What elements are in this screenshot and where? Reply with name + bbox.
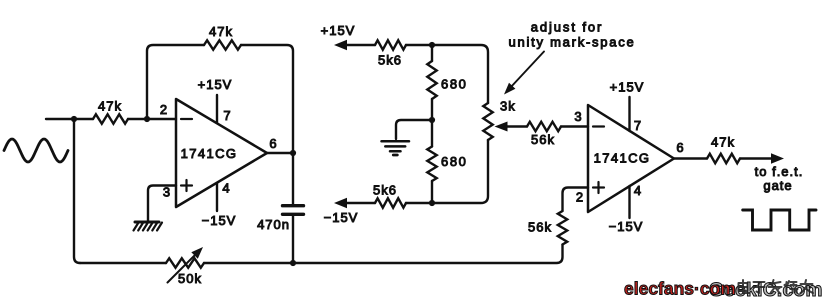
svg-text:2: 2: [160, 102, 168, 117]
wire: feedback loop of U1: [147, 45, 293, 153]
node C junction dot (U1 output): [290, 150, 296, 156]
svg-text:4: 4: [634, 183, 642, 198]
svg-text:+15V: +15V: [610, 80, 645, 95]
resistor R 5k6 (lower): [375, 198, 406, 207]
node F junction dot (divider midpoint): [429, 117, 435, 123]
arrow to +15V: [334, 40, 347, 50]
ground (divider midpoint, 3-bar): [382, 141, 410, 155]
U2 pin 7 supply stub: [628, 97, 630, 131]
svg-text:−15V: −15V: [609, 219, 644, 234]
wire: divider midpoint to ground: [396, 120, 432, 139]
wire: divider top segment: [431, 45, 433, 120]
square wave symbol: [743, 210, 816, 230]
potentiometer 3k: [483, 103, 492, 140]
U1 minus sign (inverting input): [181, 118, 192, 120]
svg-text:to f.e.t.: to f.e.t.: [755, 164, 804, 179]
resistor R 47k (input): [93, 114, 128, 123]
wire: divider bottom segment: [431, 120, 433, 203]
U2 minus sign (inverting input): [593, 125, 604, 127]
node D junction dot (rail / capacitor): [290, 260, 296, 266]
wire: wiper to 56k: [506, 125, 588, 127]
svg-text:−15V: −15V: [202, 213, 237, 228]
annotation arrow to 3k pot: [510, 52, 544, 89]
resistor R 47k (feedback): [204, 40, 241, 49]
potentiometer 3k wiper arrow: [495, 122, 508, 132]
svg-text:47k: 47k: [98, 99, 122, 114]
wire: divider top to potentiometer top: [432, 45, 488, 103]
node G junction dot (bottom of divider): [429, 200, 435, 206]
wire: bottom rail: [80, 245, 563, 264]
node A junction dot (input): [71, 116, 77, 122]
resistor R 47k (output): [707, 154, 740, 163]
input sine wave symbol: [4, 139, 68, 162]
svg-text:6: 6: [269, 136, 277, 151]
output arrow to f.e.t. gate: [771, 153, 784, 163]
resistor R 56k (U2 pin 2 to rail): [558, 211, 567, 245]
ground (U1 pin 3, hatched): [134, 222, 163, 231]
svg-text:6: 6: [676, 140, 684, 155]
svg-text:50k: 50k: [178, 271, 202, 286]
svg-text:5k6: 5k6: [378, 53, 402, 68]
U1 pin 7 supply stub: [216, 95, 218, 123]
svg-text:5k6: 5k6: [373, 183, 397, 198]
node E junction dot (top of divider): [429, 42, 435, 48]
wire: +15V feed: [345, 44, 432, 46]
wire: -15V feed: [345, 202, 432, 204]
U2 pin 4 supply stub: [628, 186, 630, 218]
wire: U1 output: [267, 152, 293, 154]
svg-text:1741CG: 1741CG: [594, 151, 651, 166]
wire: U1 pin 3 to ground: [148, 186, 176, 222]
wire: divider bottom to potentiometer bottom: [432, 140, 488, 203]
wire: capacitor to bottom rail: [292, 216, 294, 263]
op-amp U2 triangle: [588, 105, 674, 212]
op-amp U1 triangle: [176, 99, 267, 207]
svg-text:3k: 3k: [500, 99, 516, 114]
svg-text:47k: 47k: [711, 135, 735, 150]
resistor R 680 (upper): [427, 61, 436, 99]
U1 plus sign (non-inverting input): [181, 180, 192, 191]
resistor R 5k6 (upper): [375, 40, 406, 49]
U1 pin 4 supply stub: [216, 183, 218, 211]
svg-text:elecfans·com: elecfans·com: [624, 279, 736, 299]
svg-text:gate: gate: [763, 178, 792, 193]
svg-text:7: 7: [634, 118, 642, 133]
wire: left vertical down to bottom rail: [74, 119, 80, 263]
svg-text:3: 3: [574, 109, 582, 124]
svg-text:7: 7: [223, 108, 231, 123]
svg-text:680: 680: [441, 77, 468, 92]
node B junction dot (U1 inverting input): [144, 116, 150, 122]
wire: U2 pin 2 to 56k: [563, 188, 589, 212]
watermark chinese characters (vector strokes): [739, 280, 814, 293]
wire: input line to op-amp U1 pin 2: [46, 118, 176, 120]
svg-text:+15V: +15V: [198, 77, 233, 92]
arrow to -15V: [334, 198, 347, 208]
potentiometer 50k (rheostat in bottom rail): [166, 258, 204, 267]
svg-text:1741CG: 1741CG: [181, 146, 238, 161]
svg-text:4: 4: [222, 181, 230, 196]
arrow through 50k rheostat: [168, 253, 198, 283]
svg-text:+15V: +15V: [321, 23, 356, 38]
wire: U2 output: [674, 157, 772, 159]
svg-text:47k: 47k: [209, 24, 233, 39]
svg-text:470n: 470n: [257, 217, 290, 232]
svg-text:unity mark-space: unity mark-space: [509, 35, 636, 50]
svg-text:56k: 56k: [528, 220, 552, 235]
capacitor C 470n: [283, 206, 304, 215]
svg-text:56k: 56k: [531, 132, 555, 147]
wire: U1 output to capacitor: [292, 153, 294, 204]
resistor R 680 (lower): [427, 147, 436, 182]
svg-text:−15V: −15V: [324, 210, 359, 225]
svg-text:680: 680: [441, 154, 468, 169]
svg-text:2: 2: [576, 190, 584, 205]
resistor R 56k (wiper series): [527, 122, 561, 131]
svg-text:adjust for: adjust for: [531, 20, 603, 35]
U2 plus sign (non-inverting input): [593, 182, 604, 193]
svg-text:3: 3: [163, 185, 171, 200]
